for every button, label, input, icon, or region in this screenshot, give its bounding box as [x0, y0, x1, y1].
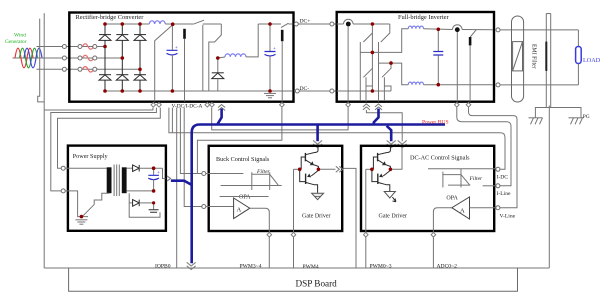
- svg-text:+: +: [273, 47, 276, 52]
- svg-text:Wind: Wind: [14, 32, 26, 38]
- svg-text:Full-bridge Inverter: Full-bridge Inverter: [398, 14, 449, 21]
- svg-text:PG: PG: [583, 114, 590, 120]
- svg-text:+: +: [175, 46, 178, 51]
- svg-text:I-Line: I-Line: [497, 191, 511, 197]
- svg-text:V-Line: V-Line: [500, 214, 516, 220]
- svg-text:DC-: DC-: [300, 86, 310, 92]
- svg-text:PWM0~3: PWM0~3: [370, 264, 392, 270]
- svg-text:Buck Control Signals: Buck Control Signals: [216, 156, 270, 163]
- svg-text:DC+: DC+: [300, 19, 311, 25]
- svg-text:DC-AC Control Signals: DC-AC Control Signals: [410, 154, 470, 161]
- svg-text:I-DC: I-DC: [497, 174, 509, 180]
- svg-text:LOAD: LOAD: [583, 57, 600, 64]
- svg-text:OPA: OPA: [239, 195, 251, 201]
- svg-text:A: A: [237, 207, 242, 214]
- svg-text:Generator: Generator: [5, 39, 27, 45]
- svg-text:Rectifier-bridge Converter: Rectifier-bridge Converter: [76, 14, 145, 21]
- svg-text:Power Supply: Power Supply: [73, 153, 109, 160]
- svg-text:ADC0~2: ADC0~2: [437, 264, 458, 270]
- svg-text:PWM4: PWM4: [303, 264, 319, 270]
- svg-text:Power BUS: Power BUS: [422, 119, 449, 125]
- svg-text:A: A: [460, 208, 465, 215]
- svg-text:IOPB0: IOPB0: [155, 263, 171, 269]
- svg-text:Gate Driver: Gate Driver: [302, 214, 331, 220]
- svg-text:DSP Board: DSP Board: [296, 279, 338, 289]
- svg-text:EMI Filter: EMI Filter: [531, 44, 537, 69]
- svg-text:Filter: Filter: [256, 169, 271, 175]
- svg-text:V-DC/I-DC-A: V-DC/I-DC-A: [172, 104, 203, 110]
- svg-text:+: +: [157, 171, 160, 176]
- svg-text:Filter: Filter: [469, 176, 484, 182]
- svg-text:OPA: OPA: [446, 195, 458, 201]
- svg-text:Gate Driver: Gate Driver: [379, 214, 408, 220]
- svg-text:PWM3~4: PWM3~4: [240, 263, 262, 269]
